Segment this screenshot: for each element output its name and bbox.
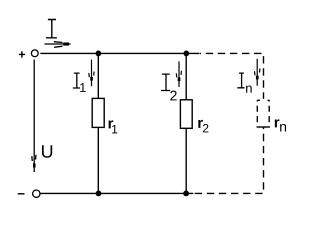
wire top bus dashed to branch n corner <box>200 53 264 99</box>
label I2 <box>161 74 170 90</box>
wire top bus solid <box>40 52 199 54</box>
label rn <box>275 119 280 127</box>
terminal + (top left circle) <box>31 50 38 57</box>
wire branch 1 bottom <box>97 127 99 193</box>
wire bottom bus solid <box>41 192 194 194</box>
node B (top junction branch 2) <box>183 51 189 57</box>
label In <box>237 73 244 88</box>
node D (bottom junction branch 2) <box>183 191 189 197</box>
wire bottom bus dashed from branch n <box>193 127 263 193</box>
wire branch 2 bottom <box>185 128 187 193</box>
label r2 <box>198 120 203 128</box>
label I (main current symbol) <box>46 20 57 38</box>
current arrow I2 (pointing down) <box>176 61 181 87</box>
label I1 <box>73 73 80 88</box>
resistor r2 <box>180 100 192 129</box>
plus terminal label <box>19 51 25 57</box>
node A (top junction branch 1) <box>96 51 102 57</box>
resistor r1 <box>92 98 104 127</box>
current arrow I (pointing right) <box>45 42 71 48</box>
minus terminal label <box>18 193 25 195</box>
label U <box>42 145 52 158</box>
node C (bottom junction branch 1) <box>96 191 102 197</box>
wire branch 2 top <box>185 53 187 99</box>
voltage arrow U (pointing down) <box>32 60 36 173</box>
current arrow In (pointing down) <box>255 59 260 86</box>
current arrow I1 (pointing down) <box>89 60 94 87</box>
terminal - (bottom left circle) <box>33 190 40 197</box>
wire branch 1 top <box>97 53 99 98</box>
resistor rn (dashed) <box>257 100 270 127</box>
label r1 <box>109 120 114 128</box>
